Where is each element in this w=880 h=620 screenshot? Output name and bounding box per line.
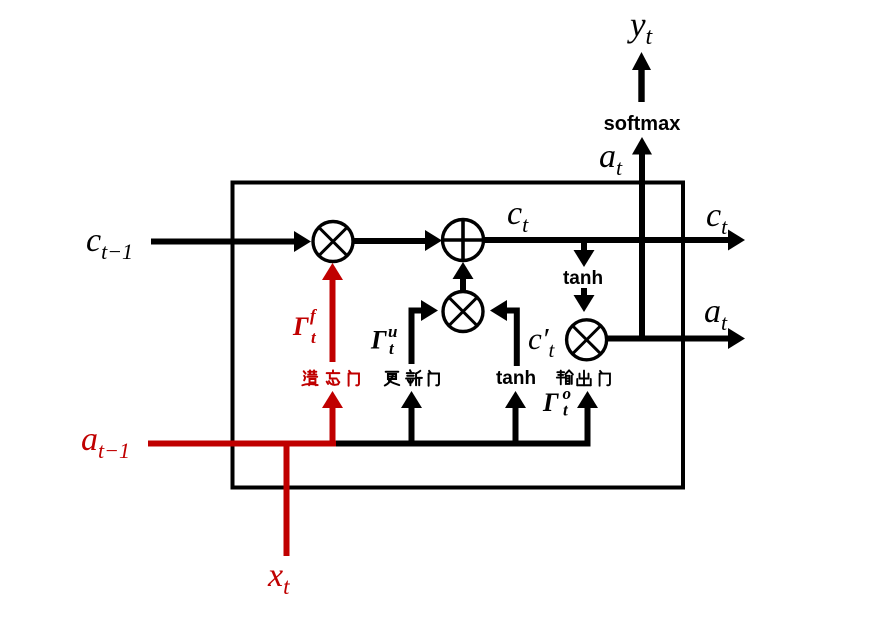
svg-text:softmax: softmax (604, 113, 681, 135)
svg-text:t: t (311, 328, 317, 347)
svg-text:Γ: Γ (292, 312, 309, 341)
svg-text:t: t (563, 401, 569, 420)
svg-text:xt: xt (267, 557, 290, 599)
svg-text:tanh: tanh (563, 268, 603, 289)
svg-text:Γ: Γ (542, 388, 559, 417)
svg-text:f: f (310, 306, 318, 325)
svg-text:ct: ct (706, 197, 728, 239)
svg-text:at: at (599, 138, 623, 180)
svg-text:tanh: tanh (496, 368, 536, 389)
svg-text:ct−1: ct−1 (86, 222, 133, 264)
svg-text:c′t: c′t (528, 321, 556, 362)
svg-text:ct: ct (507, 195, 529, 237)
svg-text:at: at (704, 293, 728, 335)
svg-text:at−1: at−1 (81, 421, 130, 463)
svg-text:yt: yt (627, 5, 654, 50)
svg-text:t: t (389, 339, 395, 358)
svg-text:Γ: Γ (370, 326, 387, 355)
